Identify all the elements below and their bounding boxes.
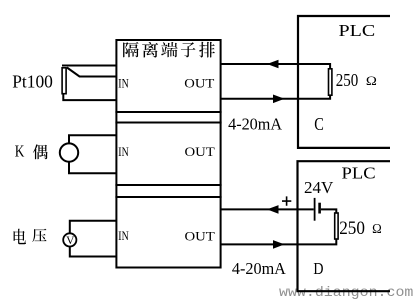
- svg-text:D: D: [313, 259, 323, 278]
- svg-text:PLC: PLC: [339, 21, 376, 40]
- svg-text:OUT: OUT: [184, 77, 214, 91]
- svg-text:250: 250: [336, 70, 359, 90]
- svg-text:IN: IN: [118, 229, 128, 243]
- svg-text:4-20mA: 4-20mA: [232, 259, 287, 278]
- svg-text:24V: 24V: [304, 178, 334, 197]
- svg-text:Pt100: Pt100: [12, 72, 53, 92]
- svg-text:K: K: [15, 141, 25, 160]
- svg-text:V: V: [66, 235, 75, 247]
- svg-text:IN: IN: [118, 76, 128, 90]
- svg-text:PLC: PLC: [342, 163, 376, 182]
- svg-text:Ω: Ω: [372, 221, 382, 236]
- svg-text:C: C: [314, 114, 324, 134]
- svg-text:www.diangon.com: www.diangon.com: [279, 285, 413, 301]
- svg-text:Ω: Ω: [366, 73, 377, 88]
- svg-text:4-20mA: 4-20mA: [228, 115, 283, 134]
- svg-text:OUT: OUT: [185, 230, 216, 244]
- svg-text:250: 250: [339, 219, 365, 239]
- svg-text:IN: IN: [118, 145, 128, 159]
- svg-text:OUT: OUT: [185, 145, 216, 159]
